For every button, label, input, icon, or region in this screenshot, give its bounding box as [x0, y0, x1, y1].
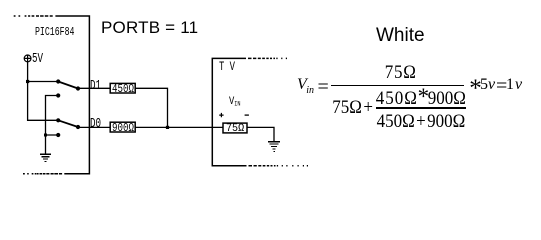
wire: D0 common to resistor 900 — [78, 126, 110, 128]
label PIC16F84 — [35, 26, 74, 38]
label TV — [219, 61, 235, 74]
equation Vin — [297, 77, 314, 96]
junction dot (parallel combination node) — [166, 126, 169, 129]
value 75ohm — [226, 124, 244, 135]
label D0 — [90, 117, 101, 131]
wire: 900 output to TV input — [135, 126, 223, 128]
resistor R450 box — [110, 83, 135, 93]
wire: 5V rail vertical + corner to D0 contact — [28, 62, 58, 121]
wire: 75ohm to TV ground — [247, 127, 274, 141]
equation main fraction bar — [331, 85, 464, 86]
label 5V — [32, 53, 43, 67]
junction on ground rail — [44, 134, 47, 137]
value 450ohm — [112, 83, 134, 95]
5V supply symbol — [24, 55, 31, 62]
plus terminal mark — [219, 113, 223, 117]
equation numerator 75ohm — [385, 62, 417, 81]
label D1 — [90, 79, 101, 93]
equation 1v — [506, 77, 523, 93]
equation times star — [469, 76, 482, 101]
resistor 75ohm box — [223, 123, 247, 133]
wire: ground rail (middle) — [46, 96, 59, 154]
equation nested numerator 900 ohm — [428, 88, 466, 107]
switch D1 (closed to 5V) — [56, 79, 80, 97]
junction on 5V rail — [26, 80, 29, 83]
wire: branch to D1 upper contact — [28, 81, 58, 83]
equation equals — [318, 77, 329, 97]
switch D0 (closed to 5V) — [56, 118, 80, 137]
resistor R900 box — [110, 122, 135, 132]
label PORTB = 11 — [101, 19, 198, 36]
value 900ohm — [112, 122, 134, 134]
heading White — [376, 26, 425, 45]
PIC16F84 chip outline (dashed left, solid right) — [14, 16, 90, 174]
wire: D1 common to resistor 450 — [78, 87, 110, 89]
equation nested fraction bar — [376, 107, 466, 108]
ground symbol (TV) — [268, 141, 280, 152]
equation tail equals — [496, 76, 507, 96]
equation 5v — [480, 77, 495, 93]
label VIN — [229, 97, 241, 108]
equation nested numerator 450 ohm — [376, 88, 418, 107]
ground symbol (left) — [40, 154, 51, 162]
wire: 450 output to junction — [135, 88, 167, 127]
minus terminal mark — [245, 114, 249, 116]
TV box outline (solid left, dashed right) — [212, 58, 308, 165]
equation denominator 75ohm plus — [332, 97, 373, 116]
equation nested numerator star — [418, 85, 430, 108]
equation nested denominator 450+900 — [377, 111, 466, 130]
